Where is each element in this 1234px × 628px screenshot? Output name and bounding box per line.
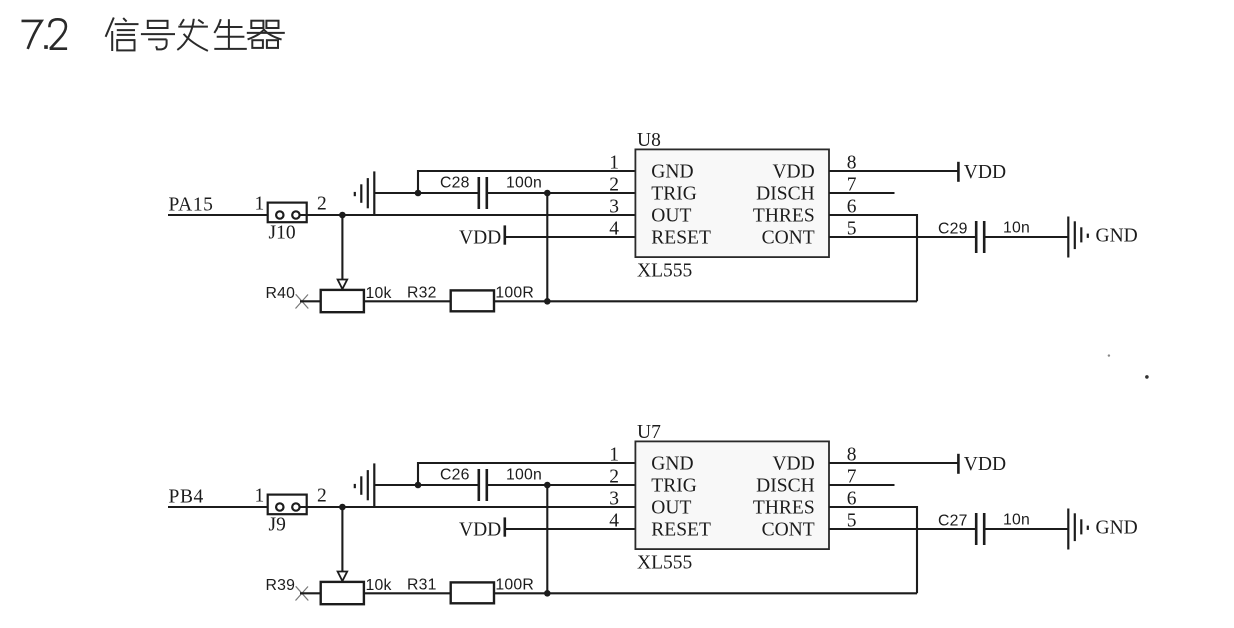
svg-text:R40: R40 [266,285,296,302]
svg-text:CONT: CONT [762,228,815,249]
power VDD (left, RESET) [459,517,505,540]
svg-text:1: 1 [609,445,619,466]
wire C28 right plate to TRIG pin 2 [487,192,635,194]
wire THRES pin 6 to feedback [829,507,917,593]
ground GND (right) [1068,217,1088,258]
wire CONT pin 5 to C29 [829,236,976,238]
svg-text:CONT: CONT [762,520,815,541]
svg-text:2: 2 [609,467,619,488]
svg-text:R39: R39 [266,577,296,594]
wire PB4 to jumper J9 pin 1 [168,506,276,508]
svg-text:U7: U7 [637,422,661,443]
svg-text:10k: 10k [366,577,392,594]
svg-text:THRES: THRES [753,498,815,519]
svg-text:R32: R32 [407,284,437,301]
wire node to C28 left plate [418,192,478,194]
svg-text:GND: GND [1096,518,1138,539]
junction dot feedback/TRIG vertical [544,590,551,597]
resistor R31 [451,582,494,603]
wire VDD pin 8 to power [829,462,958,464]
power VDD (right, pin 8) [958,162,1006,183]
speck mark 2 [1145,375,1149,379]
wire VDD pin 8 to power [829,170,958,172]
wire R31 to THRES feedback [494,592,917,594]
svg-text:100R: 100R [495,284,534,301]
junction dot feedback/TRIG vertical [544,298,551,305]
svg-text:2: 2 [317,486,327,507]
capacitor C29 [976,221,984,253]
svg-text:XL555: XL555 [637,553,692,574]
svg-text:10n: 10n [1003,512,1030,529]
svg-text:VDD: VDD [964,162,1006,183]
wire OUT node down to wiper arrow [341,215,343,280]
svg-text:C26: C26 [440,467,470,484]
no-connect cross on R39 left pin [296,586,309,600]
svg-text:J10: J10 [269,223,296,244]
junction dot at OUT node [339,504,346,511]
power VDD (right, pin 8) [958,454,1006,475]
wire R32 to THRES feedback [494,300,917,302]
wire R40 to R32 [364,300,451,302]
ground (left, near C28) [355,171,418,214]
svg-text:VDD: VDD [772,454,814,475]
no-connect cross on R40 left pin [296,294,309,308]
wire node to C26 left plate [418,484,478,486]
wire jumper pin 2 to OUT pin 3 [300,506,635,508]
potentiometer R40 body [321,290,364,312]
wire jumper pin 2 to OUT pin 3 [300,214,635,216]
svg-text:GND: GND [651,162,693,183]
svg-text:DISCH: DISCH [756,476,815,497]
speck mark 1 [1108,354,1110,356]
svg-text:100R: 100R [495,576,534,593]
capacitor C26 [479,469,487,501]
wire OUT node down to wiper arrow [341,507,343,572]
wire stub R39 pin 1 [300,592,321,594]
svg-text:10k: 10k [366,285,392,302]
wire C27 to ground [984,528,1068,530]
capacitor C28 [479,177,487,209]
wire stub R40 pin 1 [300,300,321,302]
wire TRIG node down to feedback [546,193,548,301]
svg-text:100n: 100n [506,175,542,192]
section heading number 7.2 (drawn strokes) [22,19,68,49]
wire DISCH pin 7 stub [829,192,895,194]
svg-text:C28: C28 [440,175,470,192]
svg-text:DISCH: DISCH [756,184,815,205]
svg-text:TRIG: TRIG [651,476,697,497]
svg-text:100n: 100n [506,467,542,484]
svg-text:C29: C29 [938,221,968,238]
ground (left, near C26) [355,463,418,506]
svg-text:TRIG: TRIG [651,184,697,205]
wire VDD to RESET pin 4 [505,236,635,238]
svg-text:10n: 10n [1003,220,1030,237]
svg-text:VDD: VDD [964,454,1006,475]
wire node to GND pin 1 [418,171,635,193]
svg-text:VDD: VDD [772,162,814,183]
potentiometer R39 body [321,582,364,604]
wire VDD to RESET pin 4 [505,528,635,530]
wire DISCH pin 7 stub [829,484,895,486]
svg-text:1: 1 [255,194,265,215]
op IC U8 XL555 body [635,149,829,257]
svg-text:PB4: PB4 [169,486,204,507]
svg-text:OUT: OUT [651,206,691,227]
svg-text:PA15: PA15 [169,194,214,215]
svg-text:2: 2 [317,194,327,215]
svg-text:4: 4 [609,511,619,532]
svg-text:J9: J9 [269,515,286,536]
wire CONT pin 5 to C27 [829,528,976,530]
junction dot TRIG node [544,190,551,197]
svg-text:1: 1 [255,486,265,507]
svg-text:4: 4 [609,219,619,240]
title CJK text 信号发生器 (drawn strokes) [106,18,285,52]
svg-text:1: 1 [609,153,619,174]
junction dot TRIG node [544,482,551,489]
junction dot ground/GND-pin/C26 node [415,482,422,489]
svg-text:2: 2 [609,175,619,196]
resistor R32 [451,290,494,311]
capacitor C27 [976,513,984,545]
svg-text:THRES: THRES [753,206,815,227]
jumper J9 [268,495,307,515]
svg-text:GND: GND [651,454,693,475]
svg-text:C27: C27 [938,513,968,530]
svg-text:GND: GND [1096,226,1138,247]
wire R39 to R31 [364,592,451,594]
svg-text:RESET: RESET [651,520,711,541]
svg-text:R31: R31 [407,576,437,593]
svg-text:3: 3 [609,489,619,510]
wire THRES pin 6 to feedback [829,215,917,301]
power VDD (left, RESET) [459,225,505,248]
jumper J10 [268,203,307,223]
wire C29 to ground [984,236,1068,238]
svg-text:VDD: VDD [459,227,501,248]
junction dot ground/GND-pin/C28 node [415,190,422,197]
svg-text:3: 3 [609,197,619,218]
svg-text:XL555: XL555 [637,261,692,282]
ground GND (right) [1068,509,1088,550]
svg-text:U8: U8 [637,130,661,151]
svg-text:OUT: OUT [651,498,691,519]
junction dot at OUT node [339,212,346,219]
wiper arrow of R39 [338,572,348,582]
wire TRIG node down to feedback [546,485,548,593]
wiper arrow of R40 [338,280,348,290]
svg-text:VDD: VDD [459,519,501,540]
op IC U7 XL555 body [635,441,829,549]
wire C26 right plate to TRIG pin 2 [487,484,635,486]
wire node to GND pin 1 [418,463,635,485]
svg-text:RESET: RESET [651,228,711,249]
wire PA15 to jumper J10 pin 1 [168,214,276,216]
